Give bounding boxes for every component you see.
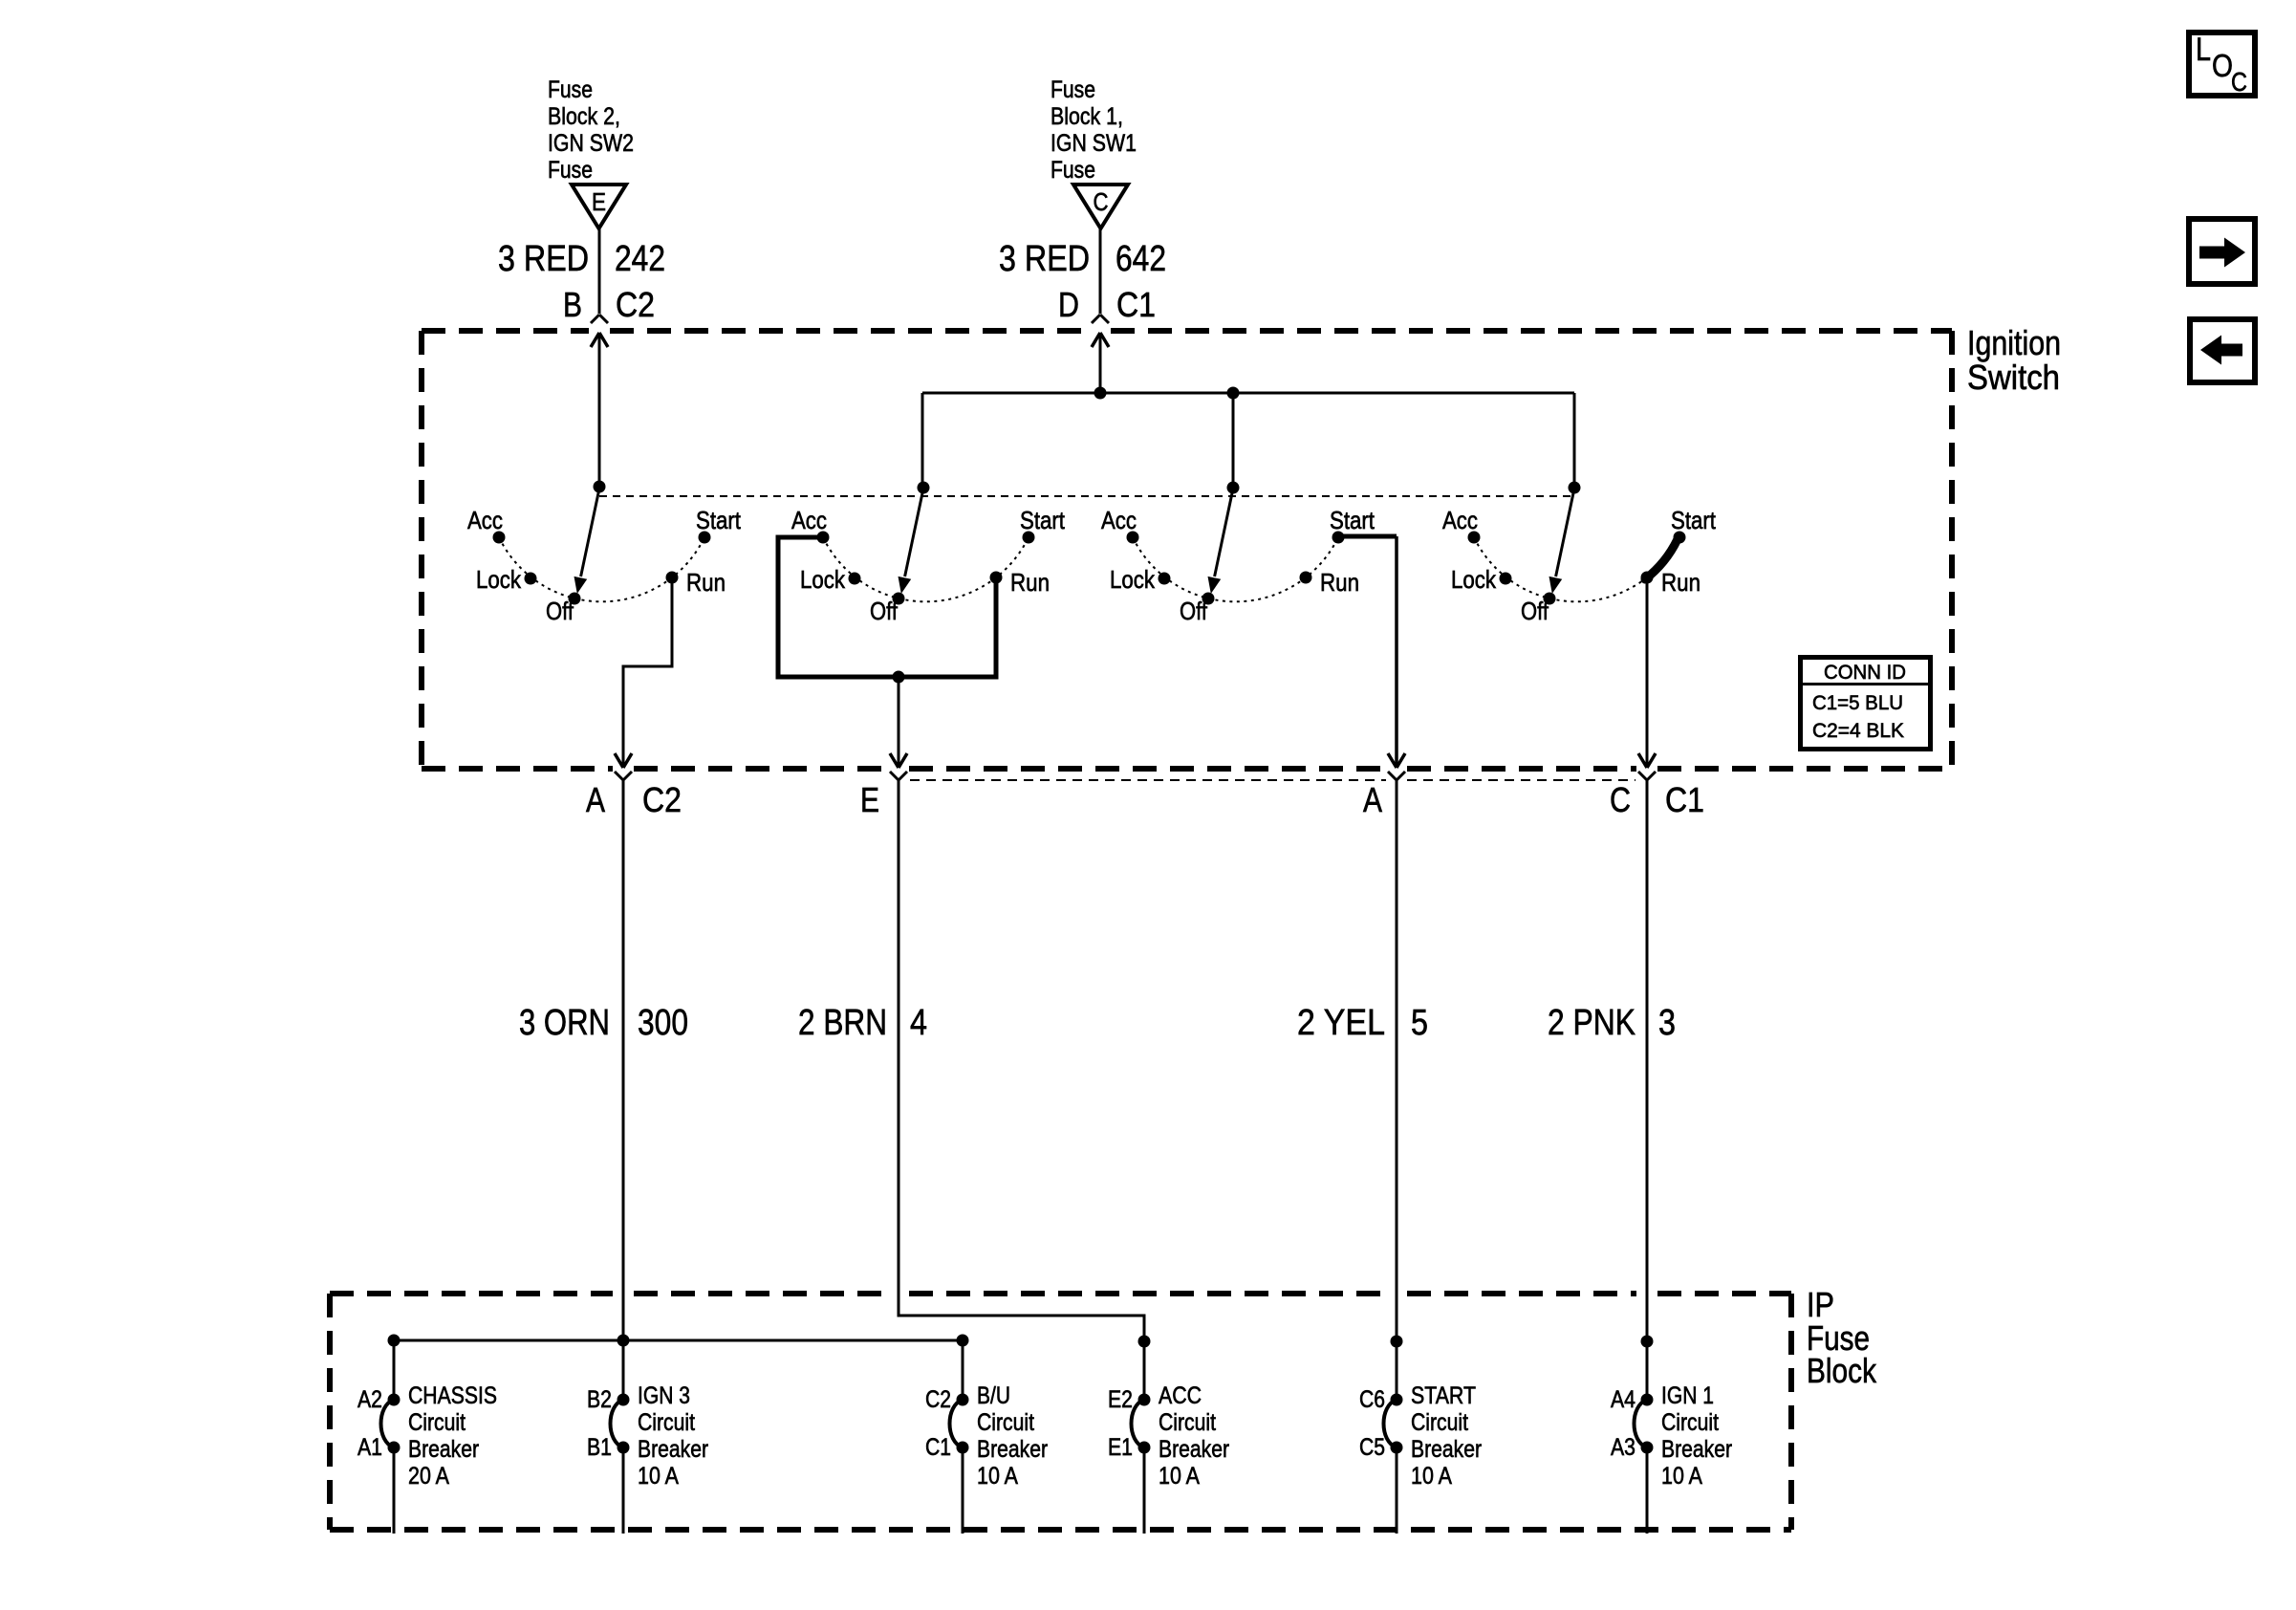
wire label 2 BRN 4 <box>798 1003 927 1043</box>
junction at fuse block bus x=652 <box>617 1335 630 1347</box>
switch deck 4 Start contact <box>1671 506 1717 544</box>
svg-text:Start: Start <box>1671 506 1717 534</box>
START breaker label <box>1411 1382 1482 1490</box>
svg-text:Start: Start <box>696 506 742 534</box>
switch deck 2 Off contact <box>870 593 905 626</box>
svg-text:A3: A3 <box>1611 1434 1635 1461</box>
svg-text:D: D <box>1058 285 1079 324</box>
svg-text:A: A <box>586 780 605 819</box>
CHASSIS breaker label <box>408 1382 497 1490</box>
svg-text:C2: C2 <box>925 1386 951 1413</box>
switch deck 1 Lock contact <box>476 565 537 594</box>
label Ignition Switch <box>1967 323 2061 397</box>
IGN 3 circuit breaker symbol <box>611 1394 630 1454</box>
wire label 3 RED 242 <box>498 239 665 279</box>
svg-text:A4: A4 <box>1611 1386 1635 1413</box>
svg-text:CHASSIS: CHASSIS <box>408 1382 497 1409</box>
switch deck 1 Acc contact <box>467 506 506 544</box>
switch deck 4 contact arc <box>1474 537 1679 601</box>
svg-text:CONN ID: CONN ID <box>1824 662 1906 684</box>
IP fuse block dashed box <box>330 1294 1791 1530</box>
wire 2 PNK 3 from exit C to IGN 1 breaker <box>1646 780 1649 1400</box>
wire label 2 PNK 3 <box>1548 1003 1676 1043</box>
switch deck 3 Off contact <box>1180 593 1215 626</box>
CHASSIS breaker output wire <box>393 1447 396 1534</box>
START circuit breaker symbol <box>1384 1394 1403 1454</box>
junction at fuse block bus x=1723 <box>1641 1336 1654 1348</box>
svg-text:Circuit: Circuit <box>1159 1409 1216 1436</box>
svg-text:642: 642 <box>1116 239 1166 279</box>
svg-text:Lock: Lock <box>800 565 846 594</box>
fuse block internal bus wire <box>394 1340 963 1400</box>
svg-text:C: C <box>2231 67 2247 97</box>
entry arrow and wire from pin D to feed bus <box>1092 333 1109 393</box>
connector fork below ignition switch pin E <box>890 772 899 780</box>
label IP Fuse Block <box>1807 1285 1877 1390</box>
svg-text:C1: C1 <box>1116 285 1156 324</box>
svg-text:Fuse: Fuse <box>1051 157 1095 184</box>
svg-text:C1: C1 <box>925 1434 951 1461</box>
svg-text:Block: Block <box>1807 1351 1877 1390</box>
svg-text:C: C <box>1610 780 1631 819</box>
B/U circuit breaker symbol <box>950 1394 969 1454</box>
wire label 3 ORN 300 <box>519 1003 688 1043</box>
wire from fuse C to connector C1 pin D <box>1099 228 1102 314</box>
wire from fuse E to connector C2 pin B <box>598 228 601 314</box>
connector fork below ignition switch pin A <box>615 772 623 780</box>
switch deck 3 wiper arrow pointing at Off <box>1208 489 1234 594</box>
ACC circuit breaker symbol <box>1132 1394 1151 1454</box>
svg-text:Off: Off <box>1180 597 1208 625</box>
svg-text:B: B <box>563 285 582 324</box>
svg-text:10 A: 10 A <box>1411 1463 1452 1490</box>
IGN 1 circuit breaker symbol <box>1635 1394 1654 1454</box>
CHASSIS circuit breaker symbol <box>381 1394 401 1454</box>
wire label 2 YEL 5 <box>1297 1003 1428 1043</box>
fuse symbol E - Fuse Block 2 IGN SW2 Fuse <box>548 76 634 228</box>
switch deck 3 wiper pivot junction <box>1227 482 1240 494</box>
svg-text:242: 242 <box>615 239 665 279</box>
B/U breaker output wire <box>962 1447 964 1534</box>
switch deck 4 wiper pivot junction <box>1569 482 1581 494</box>
switch deck 3 Lock contact <box>1110 565 1171 594</box>
svg-text:C: C <box>1094 187 1109 216</box>
svg-text:Fuse: Fuse <box>548 76 593 103</box>
svg-text:Breaker: Breaker <box>638 1436 708 1463</box>
svg-text:10 A: 10 A <box>977 1463 1018 1490</box>
svg-text:Run: Run <box>1661 568 1700 597</box>
svg-text:Acc: Acc <box>791 506 827 534</box>
exit arrow at ignition switch pin A2 <box>1388 753 1397 768</box>
svg-text:C2=4 BLK: C2=4 BLK <box>1812 720 1904 742</box>
svg-text:Acc: Acc <box>1101 506 1137 534</box>
svg-text:10 A: 10 A <box>1661 1463 1702 1490</box>
svg-text:C6: C6 <box>1359 1386 1385 1413</box>
IGN 1 breaker output wire <box>1646 1447 1649 1534</box>
feed bus wire inside ignition switch <box>922 393 1574 488</box>
svg-text:Circuit: Circuit <box>1661 1409 1719 1436</box>
connector face dashed line below ignition switch <box>910 779 1635 781</box>
svg-text:C2: C2 <box>642 780 682 819</box>
switch deck 3 Run contact <box>1300 568 1360 597</box>
svg-text:Start: Start <box>1020 506 1066 534</box>
switch deck 4 closed contact wedge between Run and Start <box>1645 539 1678 579</box>
svg-text:Breaker: Breaker <box>977 1436 1048 1463</box>
switch deck 4 Off contact <box>1521 593 1556 626</box>
switch deck 3 Start contact <box>1330 506 1375 544</box>
wire 3 ORN 300 from exit A to IGN 3 breaker <box>622 780 625 1340</box>
svg-text:Block 1,: Block 1, <box>1051 103 1123 130</box>
B/U breaker label <box>977 1382 1048 1490</box>
svg-text:C2: C2 <box>616 285 655 324</box>
IGN 3 breaker label <box>638 1382 708 1490</box>
svg-text:Run: Run <box>1320 568 1359 597</box>
switch deck 1 wiper pivot junction <box>594 481 606 493</box>
svg-text:Off: Off <box>546 597 574 625</box>
svg-text:A: A <box>1363 780 1382 819</box>
connector fork at ignition switch C2 pin B <box>591 315 599 323</box>
entry arrow and wire from pin B to switch 1 pivot <box>591 333 608 487</box>
svg-text:E1: E1 <box>1108 1434 1133 1461</box>
svg-text:E2: E2 <box>1108 1386 1133 1413</box>
switch deck 4 Acc contact <box>1442 506 1481 544</box>
switch deck 1 contact arc <box>499 537 704 601</box>
junction at fuse block bus x=1007 <box>957 1335 969 1347</box>
svg-text:IGN SW2: IGN SW2 <box>548 130 634 157</box>
pin label C / connector C1 at switch exit <box>1610 780 1704 819</box>
svg-text:Circuit: Circuit <box>1411 1409 1468 1436</box>
svg-text:5: 5 <box>1411 1003 1428 1043</box>
connector fork at ignition switch C1 pin D <box>1092 315 1100 323</box>
junction at fuse block bus x=412 <box>388 1335 401 1347</box>
thick wire from switch 3 Start contact <box>1338 534 1397 539</box>
svg-text:C1: C1 <box>1665 780 1704 819</box>
svg-text:A2: A2 <box>357 1386 382 1413</box>
svg-text:A1: A1 <box>357 1434 382 1461</box>
ACC breaker label <box>1159 1382 1229 1490</box>
switch deck 1 Off contact <box>546 593 581 626</box>
svg-text:Fuse: Fuse <box>548 157 593 184</box>
fuse symbol C - Fuse Block 1 IGN SW1 Fuse <box>1051 76 1137 228</box>
svg-text:Breaker: Breaker <box>1159 1436 1229 1463</box>
forward navigation arrow icon box <box>2189 219 2255 284</box>
connector fork below ignition switch pin C <box>1638 772 1647 780</box>
switch deck 2 Run contact <box>990 568 1051 597</box>
wire 2 YEL 5 from exit A to START breaker <box>1396 780 1398 1400</box>
svg-text:START: START <box>1411 1382 1476 1409</box>
junction D feed on bus <box>1094 387 1107 400</box>
svg-text:IGN 1: IGN 1 <box>1661 1382 1714 1409</box>
svg-text:2 YEL: 2 YEL <box>1297 1003 1385 1043</box>
svg-text:B/U: B/U <box>977 1382 1010 1409</box>
switch deck 1 wiper arrow pointing at Off <box>574 489 600 594</box>
svg-text:C5: C5 <box>1359 1434 1385 1461</box>
START breaker output wire <box>1396 1447 1398 1534</box>
svg-text:Circuit: Circuit <box>638 1409 695 1436</box>
svg-text:IGN SW1: IGN SW1 <box>1051 130 1137 157</box>
switch deck 3 Acc contact <box>1101 506 1139 544</box>
wire from switch 4 Run contact to exit C <box>1646 579 1649 767</box>
svg-text:20 A: 20 A <box>408 1463 449 1490</box>
CONN ID legend table <box>1800 658 1931 750</box>
switch deck 2 Acc contact <box>791 506 830 544</box>
junction at fuse block bus x=1461 <box>1391 1336 1403 1348</box>
thick wire loop switch 2 Acc and Run contacts <box>778 537 996 677</box>
svg-text:Run: Run <box>686 568 726 597</box>
svg-text:Off: Off <box>870 597 899 625</box>
switch deck 3 contact arc <box>1133 537 1338 601</box>
svg-text:IGN 3: IGN 3 <box>638 1382 690 1409</box>
svg-text:3 RED: 3 RED <box>999 239 1090 279</box>
svg-text:3 ORN: 3 ORN <box>519 1003 610 1043</box>
LOC legend icon box <box>2189 32 2255 97</box>
svg-text:300: 300 <box>638 1003 688 1043</box>
switch deck 2 Start contact <box>1020 506 1066 544</box>
junction at fuse block bus x=1197 <box>1138 1336 1151 1348</box>
svg-text:2 PNK: 2 PNK <box>1548 1003 1635 1043</box>
IGN 3 breaker output wire <box>622 1447 625 1534</box>
switch deck 2 Lock contact <box>800 565 861 594</box>
switch deck 4 Run contact <box>1641 568 1701 597</box>
pin label D / connector C1 <box>1058 285 1156 324</box>
svg-text:3 RED: 3 RED <box>498 239 589 279</box>
wire from switch 3 Start to exit A <box>1395 536 1398 767</box>
svg-text:Switch: Switch <box>1967 358 2060 397</box>
svg-text:C1=5 BLU: C1=5 BLU <box>1812 692 1903 714</box>
svg-text:Lock: Lock <box>476 565 522 594</box>
svg-text:Run: Run <box>1010 568 1050 597</box>
svg-text:10 A: 10 A <box>1159 1463 1200 1490</box>
svg-text:ACC: ACC <box>1159 1382 1202 1409</box>
svg-text:3: 3 <box>1658 1003 1676 1043</box>
wire 2 BRN 4 from exit E to ACC breaker <box>899 780 1144 1400</box>
back navigation arrow icon box <box>2190 319 2255 382</box>
switch deck 2 contact arc <box>823 537 1029 601</box>
ignition switch component dashed box <box>422 331 1952 769</box>
switch deck 2 wiper pivot junction <box>918 482 930 494</box>
exit arrow at ignition switch pin E <box>890 753 899 768</box>
pin label B / connector C2 <box>563 285 655 324</box>
svg-text:Acc: Acc <box>467 506 503 534</box>
switch deck 1 Run contact <box>666 568 726 597</box>
svg-text:2 BRN: 2 BRN <box>798 1003 887 1043</box>
mechanical linkage dashed line between switch wipers <box>599 495 1575 497</box>
wire label 3 RED 642 <box>999 239 1166 279</box>
svg-text:Off: Off <box>1521 597 1549 625</box>
IGN 1 breaker label <box>1661 1382 1732 1490</box>
switch deck 4 wiper arrow pointing at Off <box>1549 489 1575 594</box>
wire from switch 1 Run contact to exit A <box>623 577 672 767</box>
wire from switch 2 loop to exit E <box>898 677 900 767</box>
svg-text:Breaker: Breaker <box>408 1436 479 1463</box>
svg-text:B2: B2 <box>587 1386 612 1413</box>
svg-text:Start: Start <box>1330 506 1375 534</box>
svg-text:Ignition: Ignition <box>1967 323 2061 362</box>
svg-text:Circuit: Circuit <box>408 1409 466 1436</box>
svg-text:Lock: Lock <box>1110 565 1156 594</box>
switch deck 2 wiper arrow pointing at Off <box>899 489 924 594</box>
svg-text:Fuse: Fuse <box>1051 76 1095 103</box>
svg-text:Breaker: Breaker <box>1411 1436 1482 1463</box>
junction on switch 2 output loop <box>893 671 905 684</box>
svg-text:10 A: 10 A <box>638 1463 679 1490</box>
exit arrow at ignition switch pin C <box>1638 753 1647 768</box>
svg-text:L: L <box>2196 32 2211 68</box>
svg-text:Breaker: Breaker <box>1661 1436 1732 1463</box>
svg-text:E: E <box>860 780 879 819</box>
svg-text:B1: B1 <box>587 1434 612 1461</box>
junction switch 3 feed on bus <box>1227 387 1240 400</box>
svg-text:Acc: Acc <box>1442 506 1478 534</box>
exit arrow at ignition switch pin A <box>615 753 623 768</box>
svg-text:Circuit: Circuit <box>977 1409 1034 1436</box>
connector fork below ignition switch pin A2 <box>1388 772 1397 780</box>
pin label A / connector C2 at switch exit <box>586 780 682 819</box>
switch deck 4 Lock contact <box>1451 565 1512 594</box>
switch deck 1 Start contact <box>696 506 742 544</box>
svg-text:E: E <box>592 187 606 216</box>
ACC breaker output wire <box>1143 1447 1146 1534</box>
svg-text:O: O <box>2212 48 2233 83</box>
svg-text:Lock: Lock <box>1451 565 1497 594</box>
svg-text:4: 4 <box>910 1003 927 1043</box>
svg-text:Block 2,: Block 2, <box>548 103 620 130</box>
